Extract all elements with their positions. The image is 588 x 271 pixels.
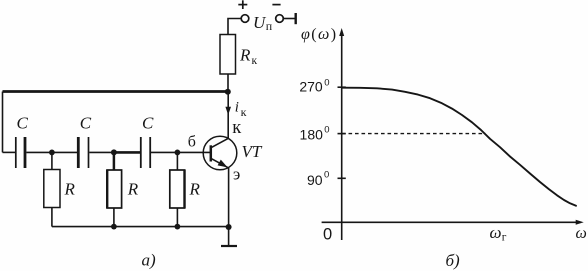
svg-text:ω: ω bbox=[576, 225, 587, 242]
svg-text:г: г bbox=[502, 232, 507, 244]
label Uп (supply voltage) bbox=[253, 13, 273, 33]
wire bottom rail bbox=[52, 226, 229, 228]
svg-text:180: 180 bbox=[300, 127, 324, 143]
label VT bbox=[242, 142, 263, 161]
resistor Rk bbox=[220, 35, 236, 75]
capacitor C2 bbox=[78, 137, 88, 168]
tick 90 bbox=[338, 177, 346, 179]
phase response curve bbox=[342, 88, 576, 206]
svg-text:0: 0 bbox=[324, 78, 329, 89]
svg-text:φ(ω): φ(ω) bbox=[301, 26, 337, 43]
resistor R2 bbox=[107, 170, 122, 208]
svg-text:0: 0 bbox=[324, 169, 329, 180]
svg-text:R: R bbox=[189, 180, 201, 199]
label б (base) bbox=[188, 133, 196, 150]
node D bbox=[175, 150, 181, 156]
capacitor C1 bbox=[16, 137, 25, 168]
label 180 with degree bbox=[300, 125, 330, 143]
tick 270 bbox=[338, 86, 346, 88]
svg-text:э: э bbox=[233, 164, 240, 183]
wire emitter down bbox=[228, 168, 230, 246]
label 0 origin bbox=[323, 226, 332, 244]
wire node D to base bbox=[177, 151, 210, 153]
label omega_g bbox=[490, 223, 507, 244]
wire R3 to bottom rail bbox=[176, 208, 178, 227]
wire from - terminal to end bar bbox=[283, 18, 295, 20]
junction bottom B bbox=[111, 224, 117, 230]
capacitor C3 bbox=[141, 137, 150, 168]
wire node B to C3 (thick) bbox=[114, 151, 140, 154]
svg-text:б): б) bbox=[446, 251, 461, 270]
+ terminal circle bbox=[241, 15, 249, 23]
svg-text:к: к bbox=[232, 118, 241, 138]
svg-text:R: R bbox=[239, 46, 251, 65]
wire node B to R2 (thick) bbox=[113, 152, 116, 170]
svg-text:i: i bbox=[235, 100, 239, 116]
svg-text:R: R bbox=[64, 180, 76, 199]
label 270 with degree bbox=[299, 78, 329, 95]
svg-text:0: 0 bbox=[323, 226, 332, 244]
wire C2 to node B bbox=[89, 151, 114, 153]
- terminal circle bbox=[276, 15, 284, 23]
label R2 bbox=[127, 180, 139, 199]
svg-text:б: б bbox=[188, 133, 196, 150]
label omega axis bbox=[576, 225, 587, 242]
node collector junction bbox=[225, 89, 231, 95]
svg-text:C: C bbox=[142, 113, 154, 132]
svg-text:90: 90 bbox=[307, 172, 323, 188]
junction bottom D bbox=[175, 224, 181, 230]
svg-text:C: C bbox=[80, 113, 92, 132]
svg-text:ω: ω bbox=[490, 223, 502, 242]
wire Rk bottom to collector node bbox=[227, 74, 229, 92]
transistor VT circle bbox=[203, 136, 237, 170]
x axis omega bbox=[322, 220, 584, 225]
label к (collector) bbox=[232, 118, 241, 138]
tick 180 bbox=[338, 133, 346, 135]
label phi(omega) bbox=[301, 26, 337, 43]
label а) bbox=[142, 251, 157, 270]
label R3 bbox=[189, 180, 201, 199]
label э (emitter) bbox=[233, 164, 240, 183]
node A bbox=[49, 150, 55, 156]
svg-text:270: 270 bbox=[299, 79, 323, 95]
svg-text:а): а) bbox=[142, 251, 157, 270]
wire from supply + terminal to Rk top bbox=[228, 19, 241, 35]
label 90 with degree bbox=[307, 169, 329, 188]
transistor emitter lead with arrow bbox=[211, 158, 229, 168]
resistor R3 bbox=[170, 170, 185, 208]
label C2 bbox=[80, 113, 92, 132]
svg-text:0: 0 bbox=[324, 125, 329, 136]
plus sign bbox=[238, 0, 247, 9]
label б) bbox=[446, 251, 461, 270]
label ik bbox=[235, 100, 247, 120]
label R1 bbox=[64, 180, 76, 199]
supply end bar bbox=[295, 13, 297, 24]
dashed line 180 level bbox=[342, 133, 486, 135]
wire node A to R1 bbox=[51, 152, 53, 169]
transistor collector lead bbox=[211, 138, 229, 148]
wire C3 to node D bbox=[151, 151, 177, 153]
label C3 bbox=[142, 113, 154, 132]
wire collector with current arrow ik bbox=[225, 92, 231, 139]
wire R1 to bottom rail bbox=[51, 208, 53, 227]
wire feedback top (thick) bbox=[3, 90, 228, 93]
svg-text:VT: VT bbox=[242, 142, 263, 161]
wire C1 to node A bbox=[26, 151, 77, 153]
wire R2 to bottom rail bbox=[113, 208, 115, 227]
svg-text:п: п bbox=[266, 19, 273, 33]
label Rk bbox=[239, 46, 258, 68]
transistor base bar bbox=[210, 145, 213, 161]
wire into capacitor C1 bbox=[3, 151, 16, 153]
svg-text:R: R bbox=[127, 180, 139, 199]
node B bbox=[111, 149, 117, 155]
wire node D to R3 bbox=[176, 152, 178, 170]
svg-text:к: к bbox=[252, 55, 258, 67]
minus sign bbox=[272, 4, 280, 6]
svg-text:C: C bbox=[17, 114, 29, 133]
junction emitter bottom bbox=[226, 224, 232, 230]
ground bar bbox=[221, 245, 237, 247]
y axis phi(omega) bbox=[339, 28, 344, 240]
wire left vertical bbox=[2, 92, 4, 153]
resistor R1 bbox=[44, 170, 60, 208]
label C1 bbox=[17, 114, 29, 133]
svg-text:к: к bbox=[241, 105, 247, 119]
